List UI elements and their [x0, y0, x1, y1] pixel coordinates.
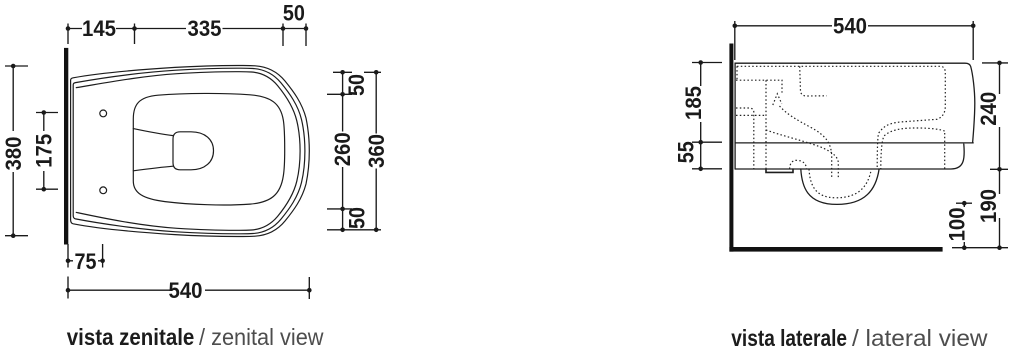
svg-text:185: 185 [681, 86, 706, 120]
svg-text:50: 50 [283, 1, 305, 26]
svg-text:175: 175 [31, 134, 56, 168]
svg-text:540: 540 [833, 13, 867, 38]
svg-text:335: 335 [188, 16, 222, 41]
svg-text:55: 55 [674, 141, 699, 163]
svg-text:100: 100 [945, 207, 970, 241]
svg-text:50: 50 [344, 74, 369, 96]
svg-text:240: 240 [976, 92, 1001, 126]
svg-text:50: 50 [345, 207, 370, 229]
svg-text:75: 75 [75, 249, 97, 274]
svg-text:/ zenital view: / zenital view [199, 324, 324, 350]
svg-text:190: 190 [976, 189, 1001, 223]
svg-text:540: 540 [169, 278, 203, 303]
svg-text:/ lateral view: / lateral view [852, 325, 988, 351]
svg-text:260: 260 [330, 132, 355, 166]
svg-text:360: 360 [364, 134, 389, 168]
svg-text:vista zenitale: vista zenitale [67, 324, 195, 350]
svg-text:380: 380 [1, 137, 26, 171]
svg-text:145: 145 [82, 16, 116, 41]
svg-text:vista laterale: vista laterale [731, 325, 847, 351]
